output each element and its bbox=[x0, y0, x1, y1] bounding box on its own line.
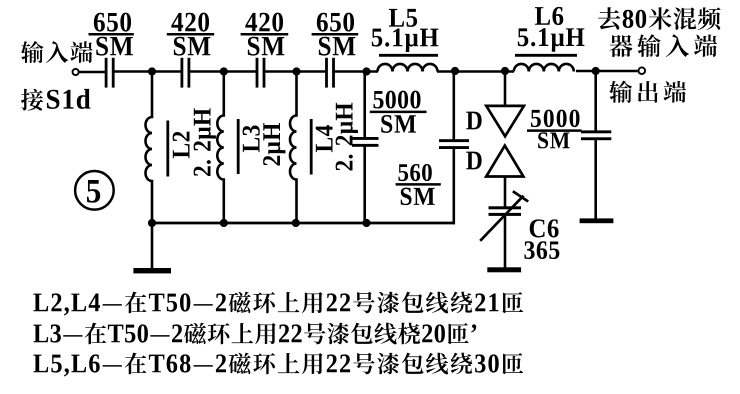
wire: C3 to C4 through node C bbox=[264, 70, 327, 73]
label: input terminal 输入端 bbox=[21, 41, 93, 63]
node D1 junction dot (5000pF tap) bbox=[362, 67, 370, 75]
label: 2.2uH for L4 (rotated) bbox=[336, 103, 358, 171]
main ground symbol bbox=[133, 268, 171, 273]
diode D2 (lower, anode up) bbox=[486, 146, 523, 177]
label: 650 / SM for C1 bbox=[89, 13, 134, 56]
ground bus junction dot (L4) bbox=[292, 219, 300, 227]
text line 2: L3 winding note bbox=[33, 323, 476, 345]
node G junction dot (after L6) bbox=[592, 67, 600, 75]
wire: output cap to ground bbox=[594, 140, 597, 219]
node E junction dot (after L5) bbox=[451, 67, 459, 75]
label: 365 for C6 bbox=[524, 241, 559, 259]
inductor L5 coil bbox=[378, 64, 438, 72]
figure number circle 5 bbox=[75, 171, 114, 210]
wire: node F down to diode D1 bbox=[504, 71, 507, 106]
node F junction dot (diode branch tap) bbox=[501, 67, 509, 75]
ground symbol below output cap bbox=[580, 218, 614, 223]
text line 3: L5,L6 winding note bbox=[33, 353, 523, 377]
capacitor C4 (650 SM) bbox=[325, 58, 335, 88]
inductor L6 coil bbox=[514, 64, 574, 72]
label: 2.2uH for L2 (rotated) bbox=[194, 108, 216, 176]
wire: 560pF cap to ground bus corner bbox=[452, 149, 455, 225]
node B junction dot (L3 tap) bbox=[220, 67, 228, 75]
inductor L4 coil bbox=[290, 72, 297, 224]
label: L5 bbox=[389, 9, 417, 27]
inductor L3 coil bbox=[217, 72, 223, 224]
variable capacitor C6 arrow bbox=[480, 191, 528, 241]
label: 2uH for L3 (rotated) bbox=[263, 123, 285, 165]
label: L4 (rotated) bbox=[316, 125, 333, 152]
wire: L6 to output terminal bbox=[576, 70, 638, 73]
inductor L5 core bar bbox=[379, 54, 438, 57]
ground bus junction dot (L3) bbox=[220, 219, 228, 227]
inductor L6 core bar bbox=[515, 54, 577, 57]
inductor L2 core bar bbox=[166, 121, 169, 177]
capacitor C3 (420 SM) bbox=[256, 58, 266, 88]
wire: diode D2 to variable capacitor C6 bbox=[504, 177, 507, 208]
wire: C4 to L5 through node D1 bbox=[333, 70, 378, 73]
label: 5.1uH for L5 bbox=[372, 28, 439, 52]
label: 5000 / SM (output) bbox=[527, 110, 582, 149]
input terminal circle bbox=[73, 69, 79, 75]
capacitor C1 (650 SM) bbox=[105, 58, 115, 88]
wire: C6 to ground bbox=[504, 216, 507, 268]
wire: C1 to C2 through node A bbox=[115, 70, 182, 73]
ground bus junction dot (5000pF) bbox=[362, 219, 370, 227]
label: 420 / SM for C3 bbox=[241, 13, 289, 56]
label: L2 (rotated) bbox=[173, 132, 190, 158]
wire: C2 to C3 through node B bbox=[189, 70, 257, 73]
capacitor C2 (420 SM) bbox=[181, 58, 191, 88]
diode D1 (upper, anode down) bbox=[486, 106, 524, 136]
wire: node D1 down to 5000pF cap bbox=[363, 72, 366, 138]
capacitor 5000pF SM (output shunt) bbox=[581, 130, 611, 140]
label: 650 / SM for C4 bbox=[312, 13, 359, 56]
wire: node E down to 560pF cap bbox=[452, 70, 455, 140]
label: 输出端 (output terminal) bbox=[609, 81, 686, 103]
wire: L5 to L6 through nodes E and F bbox=[437, 70, 514, 73]
label: 去80米混频 (to 80m mixer) bbox=[598, 7, 721, 30]
wire: node G down to output cap bbox=[594, 71, 597, 131]
ground symbol below C6 bbox=[487, 267, 521, 272]
label: C6 bbox=[530, 219, 559, 237]
ground bus wire bbox=[151, 222, 455, 225]
label: L3 (rotated) bbox=[243, 125, 260, 152]
label: 420 / SM for C2 bbox=[167, 13, 214, 56]
wire: input terminal to C1 bbox=[79, 71, 105, 74]
label: 接S1d (connect to S1d) bbox=[21, 89, 90, 111]
label: 5000 / SM (left) bbox=[370, 91, 427, 133]
capacitor 560pF SM (shunt) bbox=[439, 139, 469, 149]
label: D (upper diode) bbox=[466, 112, 481, 130]
ground bus junction dot (L2) bbox=[148, 219, 156, 227]
capacitor 5000pF SM (shunt, left) bbox=[352, 137, 379, 147]
label: 560 / SM bbox=[396, 164, 441, 205]
wire: bus to main ground bbox=[151, 223, 154, 268]
label: 5.1uH for L6 bbox=[518, 28, 585, 52]
label: D (lower diode) bbox=[466, 152, 481, 170]
node C junction dot (L4 tap) bbox=[292, 67, 300, 75]
output terminal circle bbox=[639, 67, 646, 74]
text line 1: L2,L4 winding note bbox=[33, 292, 523, 316]
variable capacitor C6 plates bbox=[489, 206, 522, 216]
wire: 5000pF cap to ground bus bbox=[363, 147, 366, 224]
label: 器输入端 (mixer input) bbox=[609, 34, 717, 57]
label: L6 bbox=[535, 7, 563, 25]
node A junction dot (L2 tap) bbox=[148, 67, 156, 75]
inductor L3 core bar bbox=[237, 119, 240, 174]
inductor L4 core bar bbox=[310, 119, 313, 175]
inductor L2 coil bbox=[146, 72, 152, 224]
